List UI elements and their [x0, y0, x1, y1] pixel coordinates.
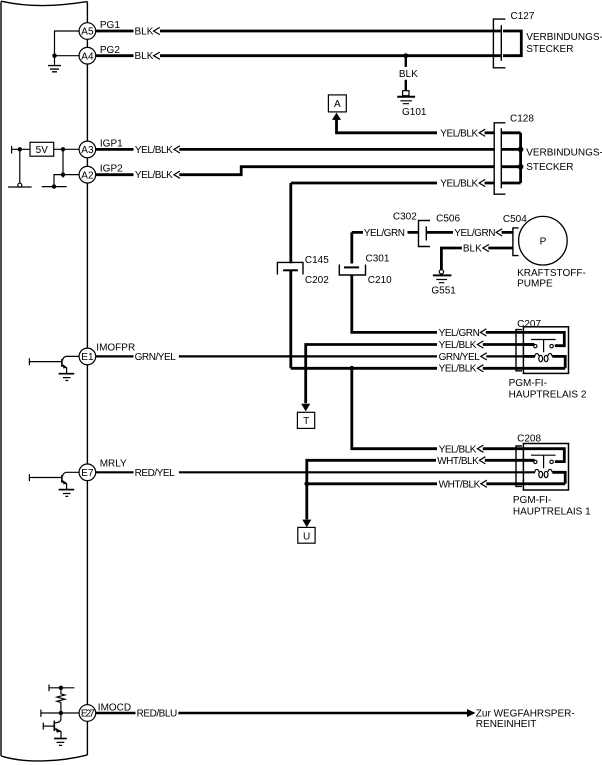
relay C208 coil out to pin4	[523, 472, 565, 484]
wire C128 pin1 to A	[337, 119, 438, 132]
junction C128 pin2	[518, 147, 524, 153]
transistor Q1 base bar	[61, 359, 63, 367]
relay C208 coil	[535, 469, 552, 472]
svg-text:VERBINDUNGS-: VERBINDUNGS-	[526, 32, 602, 43]
svg-text:A2: A2	[81, 170, 94, 181]
transistor Q3 emitter arrow	[55, 728, 61, 733]
svg-text:YEL/BLK: YEL/BLK	[439, 444, 477, 455]
wire WHT/BLK C208 pin2 to U	[307, 460, 535, 484]
arrow C208 pin1	[477, 445, 483, 452]
svg-text:YEL/GRN: YEL/GRN	[364, 228, 405, 239]
wire YEL/GRN to C302	[352, 231, 419, 234]
svg-text:A4: A4	[81, 51, 94, 62]
wire YEL/GRN C506 to pump	[427, 231, 513, 234]
ground G101 terminal square	[403, 91, 409, 96]
svg-text:YEL/BLK: YEL/BLK	[135, 145, 173, 156]
wire YEL/GRN vertical to C207 pin1	[352, 232, 437, 332]
wire YEL/BLK C207 pin4 row	[291, 367, 524, 370]
wire 5V box to A3	[54, 148, 79, 150]
relay C207 contact	[531, 340, 556, 353]
svg-text:YEL/BLK: YEL/BLK	[135, 170, 173, 181]
relay C208 box	[523, 444, 568, 491]
transistor Q2 base tick	[28, 474, 30, 481]
connector C127 inner line	[500, 25, 502, 61]
ground G101 bars	[397, 96, 415, 98]
tick E27 wire left	[40, 710, 42, 717]
arrow after BLK A5	[154, 27, 160, 34]
svg-text:YEL/BLK: YEL/BLK	[439, 364, 477, 375]
arrow C207 pin2	[477, 341, 483, 348]
relay C208 bracket	[516, 446, 522, 486]
svg-text:STECKER: STECKER	[526, 162, 573, 173]
arrow U down	[302, 520, 311, 528]
svg-text:YEL/BLK: YEL/BLK	[440, 179, 478, 190]
arrow C207 pin4	[477, 365, 483, 372]
transistor Q3 collector	[55, 713, 61, 723]
connector C127 bus	[503, 31, 521, 56]
svg-text:YEL/BLK: YEL/BLK	[439, 340, 477, 351]
ground Q2	[59, 489, 75, 491]
svg-text:A3: A3	[81, 145, 94, 156]
wire YEL/BLK A2 to C128 pin3	[96, 167, 494, 175]
arrow C208 pin4	[481, 480, 487, 487]
wire 5V right branch down to A2 wire	[62, 149, 64, 174]
svg-text:C128: C128	[510, 113, 534, 124]
junction C128 pin3	[518, 164, 524, 170]
junction 5V left	[18, 147, 22, 151]
svg-text:5V: 5V	[36, 145, 49, 156]
arrow after YEL/BLK A2	[174, 171, 180, 178]
relay C207 bracket	[516, 330, 522, 371]
ground G551 terminal circle	[439, 270, 443, 274]
svg-text:C504: C504	[503, 214, 527, 225]
svg-text:E1: E1	[81, 352, 94, 363]
transistor Q3 base bar	[53, 721, 55, 731]
svg-text:IMOFPR: IMOFPR	[96, 343, 135, 354]
wire tick to 5V box	[12, 148, 30, 150]
wire YEL/BLK C207pin4 to C208 pin1	[352, 368, 524, 448]
junction A4 ground	[52, 54, 56, 58]
transistor Q2 at E7: collector wire	[63, 472, 80, 476]
svg-text:PGM-FI-: PGM-FI-	[513, 495, 551, 506]
arrow C207 pin3	[481, 353, 487, 360]
wire A5 internal ground link	[55, 31, 80, 56]
wire C128 pin4 down through C145	[289, 183, 292, 368]
junction G101 branch	[403, 53, 408, 58]
pin A4	[79, 47, 96, 64]
svg-text:STECKER: STECKER	[526, 44, 573, 55]
svg-text:IGP1: IGP1	[100, 139, 123, 150]
wire GRN/YEL E1 to C207 pin3	[96, 355, 437, 357]
svg-text:YEL/GRN: YEL/GRN	[439, 328, 480, 339]
transistor Q3 base lead	[43, 725, 54, 727]
svg-text:RENEINHEIT: RENEINHEIT	[476, 719, 537, 730]
arrow C207 pin1	[480, 329, 486, 336]
svg-text:PG2: PG2	[100, 45, 120, 56]
svg-text:G101: G101	[402, 107, 427, 118]
connector C127 bracket	[493, 19, 505, 68]
svg-text:C207: C207	[517, 319, 541, 330]
junction arrow on A2 wire	[61, 172, 65, 176]
ground Q3	[54, 738, 67, 740]
E27 pull-up tick	[48, 685, 50, 692]
svg-text:RED/BLU: RED/BLU	[137, 708, 177, 719]
arrow after YEL/BLK A3	[174, 146, 180, 153]
arrow right to WEGFAHRSPERRE	[467, 709, 476, 717]
terminal circle 5V left ground	[18, 183, 22, 187]
svg-text:A: A	[334, 99, 341, 110]
junction E27 node	[59, 711, 63, 715]
wire BLK A5 to C127 pin1	[96, 30, 501, 33]
svg-text:C145: C145	[305, 255, 329, 266]
transistor Q2 emitter arrow	[63, 480, 67, 484]
connector C301/C210 inline	[344, 266, 359, 268]
transistor Q1 emitter arrow	[63, 364, 67, 368]
svg-text:A5: A5	[81, 27, 94, 38]
wire RED/BLU E27 to immobilizer	[96, 712, 467, 714]
ground G551 bars	[433, 274, 452, 276]
pin A5	[79, 23, 96, 40]
svg-text:RED/YEL: RED/YEL	[135, 468, 176, 479]
connector C128 bracket	[494, 123, 505, 194]
arrow into A box	[332, 113, 341, 120]
ground bar 5V left	[8, 186, 32, 188]
transistor Q1 base lead	[29, 361, 62, 363]
svg-text:GRN/YEL: GRN/YEL	[439, 352, 481, 363]
svg-text:G551: G551	[431, 285, 456, 296]
5V supply tick	[11, 146, 13, 154]
transistor Q2 emitter	[63, 481, 67, 490]
regulator 5V box	[30, 142, 54, 156]
svg-text:HAUPTRELAIS 2: HAUPTRELAIS 2	[509, 389, 587, 400]
svg-text:BLK: BLK	[135, 51, 154, 62]
wire BLK down to G101	[405, 56, 407, 91]
svg-text:HAUPTRELAIS 1: HAUPTRELAIS 1	[513, 507, 591, 518]
connector C128 bus bar	[519, 133, 522, 183]
wire A2 internal	[54, 175, 79, 187]
transistor Q1 base tick	[28, 358, 30, 365]
svg-text:PGM-FI-: PGM-FI-	[509, 378, 547, 389]
junction pull-up rail	[59, 686, 63, 690]
relay C208 contact	[531, 455, 556, 468]
pin A3	[79, 141, 96, 158]
junction U branch	[304, 481, 309, 486]
transistor Q1 emitter	[63, 365, 67, 374]
pin E7	[79, 464, 96, 481]
svg-text:T: T	[303, 416, 309, 427]
svg-text:WHT/BLK: WHT/BLK	[437, 456, 479, 467]
svg-text:MRLY: MRLY	[100, 459, 127, 470]
connector C145/C202 inline	[277, 262, 303, 274]
E27 pull-up rail	[49, 687, 74, 689]
arrow YEL/GRN pump	[496, 229, 502, 236]
svg-text:WHT/BLK: WHT/BLK	[439, 479, 481, 490]
svg-text:BLK: BLK	[463, 244, 482, 255]
ECU box left border	[0, 2, 2, 756]
svg-text:YEL/GRN: YEL/GRN	[454, 228, 495, 239]
wire YEL/BLK C128 pin4	[291, 182, 494, 185]
wire BLK pump to G551	[441, 248, 513, 270]
svg-text:C506: C506	[436, 213, 460, 224]
relay C207 coil out to pin4	[523, 356, 565, 368]
connector C506 pin	[425, 226, 427, 240]
transistor Q3 base tick	[42, 723, 44, 730]
wire RED/YEL E7 to C208 pin3	[96, 471, 535, 473]
fuel pump motor C504	[519, 216, 568, 265]
relay C207 box	[523, 327, 568, 374]
svg-text:PUMPE: PUMPE	[517, 278, 553, 289]
arrow after YEL/BLK C128 pin4	[479, 179, 485, 186]
junction C207 pin4 branch	[349, 366, 354, 371]
arrow T down	[301, 404, 310, 412]
svg-text:VERBINDUNGS-: VERBINDUNGS-	[526, 148, 602, 159]
wire A4 internal ground link	[55, 56, 80, 65]
ECU box top torn edge	[1, 1, 87, 5]
ground bar A2 branch	[42, 186, 67, 188]
junction A2 ground bar	[52, 184, 56, 188]
svg-text:IGP2: IGP2	[100, 164, 123, 175]
relay C208 contact bus	[523, 449, 564, 462]
relay C207 contact bus	[523, 332, 564, 345]
wire BLK A4 to C127 pin2	[96, 54, 501, 57]
svg-text:C301: C301	[366, 253, 390, 264]
svg-text:BLK: BLK	[399, 69, 418, 80]
svg-text:YEL/BLK: YEL/BLK	[440, 128, 478, 139]
svg-text:P: P	[540, 237, 547, 248]
svg-text:Zur WEGFAHRSPER-: Zur WEGFAHRSPER-	[476, 709, 575, 720]
connector C128 pin stubs	[501, 133, 520, 183]
wire E27 internal	[41, 712, 79, 714]
pin A2	[79, 166, 96, 183]
wire down to U	[305, 484, 308, 520]
svg-text:C302: C302	[393, 212, 417, 223]
svg-text:GRN/YEL: GRN/YEL	[135, 352, 177, 363]
svg-text:IMOCD: IMOCD	[98, 702, 131, 713]
connector C128 inner line	[500, 128, 502, 188]
ECU box bottom torn edge	[1, 755, 87, 761]
resistor R1	[57, 688, 65, 711]
arrow C208 pin2	[479, 457, 485, 464]
wire 5V left branch down	[19, 149, 21, 183]
svg-text:C210: C210	[368, 275, 392, 286]
transistor Q3 emitter	[55, 729, 61, 739]
connector C504 bracket	[513, 228, 519, 256]
transistor Q2 base bar	[61, 475, 63, 483]
svg-text:PG1: PG1	[100, 20, 120, 31]
transistor Q2 base lead	[29, 477, 62, 479]
pin E27	[79, 705, 96, 722]
wire WHT/BLK C208 pin4	[307, 482, 524, 485]
svg-text:C127: C127	[511, 11, 535, 22]
svg-text:BLK: BLK	[135, 27, 154, 38]
transistor Q1 at E1: collector wire	[63, 356, 80, 360]
arrow after YEL/BLK C128 pin1	[479, 129, 485, 136]
svg-text:U: U	[303, 532, 310, 543]
connector A box	[328, 95, 346, 112]
T box	[297, 412, 314, 428]
U box	[298, 527, 315, 543]
relay C207 coil	[523, 355, 535, 358]
wire YEL/BLK C207 pin2 to T	[306, 345, 534, 404]
arrow BLK pump	[483, 244, 489, 251]
wire YEL/BLK A3 to C128 pin2	[96, 148, 494, 151]
svg-text:C202: C202	[305, 275, 329, 286]
svg-text:E7: E7	[81, 468, 94, 479]
svg-text:C208: C208	[517, 434, 541, 445]
arrow after BLK A4	[154, 52, 160, 59]
pin E1	[79, 348, 96, 365]
junction 5V right	[61, 147, 65, 151]
ECU box right border	[86, 2, 88, 755]
connector C302 bracket	[419, 221, 431, 247]
ground ECU A5/A4	[48, 66, 61, 72]
ground Q1	[59, 373, 75, 375]
